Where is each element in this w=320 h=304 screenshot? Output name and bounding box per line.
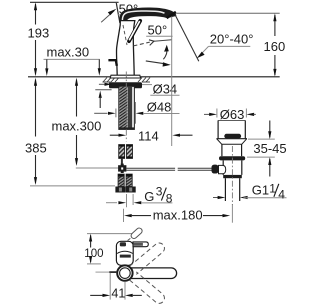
max.300 dimension [52, 78, 120, 168]
G3/8 studs and nuts [115, 174, 135, 192]
dimension 41 [90, 273, 142, 301]
G3/8 dimension label [106, 185, 173, 208]
svg-text:3: 3 [156, 185, 163, 199]
svg-text:160: 160 [264, 39, 286, 54]
swivel range dashed position (up) [130, 243, 165, 274]
svg-text:G1: G1 [252, 183, 269, 198]
spout outlet angled end [167, 12, 176, 18]
swivel range dashed position (down) [130, 272, 165, 303]
base flange [110, 75, 140, 78]
threaded shank [119, 86, 135, 129]
svg-text:Ø63: Ø63 [220, 107, 245, 122]
Ø34 label [142, 82, 180, 97]
svg-text:4: 4 [278, 188, 285, 202]
deck section hatch (right of hole) [138, 78, 150, 83]
lever open-position line [116, 3, 120, 23]
deck section hatch (left of hole) [103, 78, 119, 83]
spout [120, 8, 176, 21]
body (top view) [116, 241, 133, 265]
pull rod (top view stub) [96, 271, 110, 273]
Ø63 dimension [204, 107, 256, 122]
svg-text:G: G [144, 189, 154, 204]
G1 1/4 dimension label [213, 181, 287, 201]
pop-up waste: rod coupling [219, 165, 226, 173]
handle swivel dashes [130, 227, 143, 240]
washer underside extension line [95, 89, 111, 91]
svg-text:100: 100 [84, 248, 103, 260]
angle label 50° (lever opening) [101, 1, 146, 22]
max.180 dimension [124, 204, 233, 223]
max.30 dimension [44, 44, 101, 76]
Ø48 dimension [94, 99, 179, 123]
deck underside short lines [103, 81, 111, 83]
svg-text:max.30: max.30 [47, 44, 90, 59]
pop-up waste: tailpipe [225, 178, 239, 201]
pop-up waste: gasket band [219, 156, 245, 160]
dimension 114 [110, 128, 193, 143]
35-45 dimension [247, 121, 287, 177]
pull rod stem and tee fitting [118, 158, 126, 173]
waste pull rod (horizontal, to pop-up waste) [126, 168, 211, 170]
pop-up waste: seal band [224, 134, 241, 139]
mounting washer and nut [109, 82, 142, 88]
clamp range up-arrow (max.30 pair) [99, 91, 102, 98]
svg-text:Ø34: Ø34 [153, 82, 178, 97]
angle label 50° (handle travel) [146, 23, 172, 38]
dimension 100 [84, 234, 132, 264]
pop-up waste: lower body [223, 160, 242, 175]
svg-text:max.180: max.180 [153, 207, 203, 222]
dimension 193 extension line (top, lever fully open height) [30, 1, 119, 3]
svg-text:385: 385 [25, 141, 47, 156]
svg-text:41: 41 [111, 286, 125, 300]
dimension 160 [177, 13, 286, 77]
tap centerline [125, 72, 127, 142]
handle lever [129, 21, 140, 41]
faucet body [116, 21, 134, 76]
pop-up waste: rod knob [212, 165, 219, 174]
svg-text:Ø48: Ø48 [147, 99, 172, 114]
dimension 385 [25, 78, 115, 186]
svg-text:8: 8 [166, 192, 173, 206]
pop-up waste: tapered neck [217, 139, 247, 144]
pop-up waste: centerline [231, 146, 233, 205]
pull-rod knob on body [108, 60, 116, 66]
pivot circle (spout swivel) [117, 265, 132, 280]
angle label 20°-40° [197, 32, 254, 59]
supply hoses (broken view) [119, 145, 133, 159]
svg-text:20°-40°: 20°-40° [210, 32, 254, 47]
washer left dimension arrow [99, 83, 106, 85]
handle travel: dashed mid position with open arrow and thin line [133, 40, 171, 46]
svg-text:193: 193 [28, 26, 50, 41]
pop-up waste: flange underside [216, 138, 247, 140]
pop-up waste: locknut band [223, 175, 242, 178]
dimension 193 [28, 2, 50, 76]
spout outlet extension line (vertical) [171, 17, 173, 147]
svg-text:max.300: max.300 [52, 119, 102, 134]
spout arm (top view, solid) [128, 268, 177, 279]
pop-up waste: upper body [222, 144, 242, 156]
handle travel arc with arrowheads [146, 45, 171, 67]
svg-text:114: 114 [138, 128, 159, 143]
svg-text:50°: 50° [148, 23, 168, 38]
water stream line (20°-40°) [175, 15, 198, 61]
handle (top view) [133, 242, 148, 247]
body hidden dashes (cartridge) [123, 25, 127, 45]
countertop deck line [28, 76, 110, 78]
svg-text:35-45: 35-45 [253, 141, 286, 156]
pop-up waste: plug cylinder [218, 120, 245, 138]
